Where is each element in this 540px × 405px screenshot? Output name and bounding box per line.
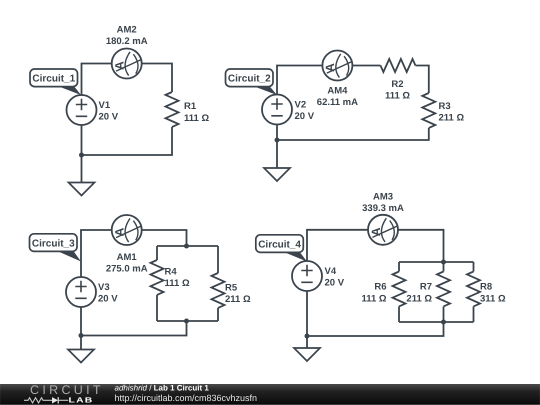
wire rail to R5: [217, 246, 219, 273]
wire V4 top to AM3: [307, 230, 368, 261]
svg-text:20 V: 20 V: [295, 111, 315, 122]
svg-text:Circuit_4: Circuit_4: [258, 240, 301, 251]
junction circuit 2 bottom node: [275, 138, 280, 143]
junction circuit 1 bottom node: [79, 153, 84, 158]
wire rail to R4: [156, 246, 158, 260]
svg-text:AM4: AM4: [327, 86, 348, 97]
junction circuit 4 top rail node: [441, 260, 446, 265]
wire V2 top to AM4: [277, 66, 322, 95]
wire bottom rail circuit 3: [157, 320, 218, 322]
node label Circuit_3: [30, 234, 82, 262]
wire V3 top to AM1: [81, 230, 112, 277]
svg-text:AM1: AM1: [117, 252, 138, 263]
wire R1 bottom to node: [82, 127, 173, 155]
wire to ground 4: [306, 336, 308, 348]
svg-text:Circuit_2: Circuit_2: [228, 74, 271, 85]
svg-text:180.2 mA: 180.2 mA: [106, 36, 148, 47]
wire R7 bottom: [443, 307, 445, 323]
resistor R1: [166, 92, 179, 127]
node label Circuit_4: [256, 235, 307, 262]
resistor R8: [467, 272, 480, 307]
voltage source V2: [262, 95, 292, 125]
wire rail to bottom node: [81, 321, 187, 336]
svg-text:111 Ω: 111 Ω: [385, 91, 410, 102]
svg-text:V3: V3: [98, 282, 110, 293]
svg-text:AM3: AM3: [373, 192, 393, 203]
svg-text:20 V: 20 V: [325, 278, 345, 289]
voltage source V1: [67, 95, 97, 125]
wire V4 bottom: [306, 291, 308, 336]
svg-text:http://circuitlab.com/cm836cvh: http://circuitlab.com/cm836cvhzusfn: [115, 393, 258, 403]
wire AM1 to parallel network: [142, 230, 187, 246]
resistor R6: [393, 272, 406, 307]
resistor R3: [422, 93, 435, 128]
wire to ground 2: [276, 140, 278, 168]
ground: [69, 183, 95, 196]
wire top rail circuit 3: [157, 245, 218, 247]
svg-text:R5: R5: [225, 283, 238, 294]
svg-text:adhishrid / Lab 1 Circuit 1: adhishrid / Lab 1 Circuit 1: [115, 384, 210, 392]
junction circuit 3 top rail node: [184, 244, 189, 249]
svg-text:Circuit_1: Circuit_1: [32, 74, 75, 85]
ground: [294, 348, 320, 361]
svg-text:211 Ω: 211 Ω: [439, 113, 465, 124]
resistor R4: [151, 260, 164, 295]
wire rail to R6: [398, 262, 400, 272]
wire to ground 3: [80, 336, 82, 350]
ammeter AM3: [368, 215, 398, 245]
wire V3 bottom: [80, 307, 82, 336]
resistor R2: [381, 59, 416, 72]
svg-text:20 V: 20 V: [98, 294, 118, 305]
wire rail to R7: [443, 262, 445, 272]
svg-text:R4: R4: [165, 267, 178, 278]
svg-text:V1: V1: [99, 100, 111, 111]
svg-text:111 Ω: 111 Ω: [165, 278, 190, 289]
svg-text:211 Ω: 211 Ω: [225, 294, 251, 305]
svg-text:R2: R2: [391, 79, 403, 90]
wire V1 bottom: [81, 125, 83, 155]
junction circuit 4 bottom node: [305, 334, 310, 339]
ammeter AM2: [112, 49, 142, 79]
svg-text:211 Ω: 211 Ω: [406, 294, 432, 305]
svg-text:LAB: LAB: [69, 396, 94, 405]
svg-text:Circuit_3: Circuit_3: [32, 239, 75, 250]
svg-text:311 Ω: 311 Ω: [480, 294, 506, 305]
wire R5 bottom: [217, 308, 219, 321]
svg-text:111 Ω: 111 Ω: [361, 294, 386, 305]
wire R6 bottom: [398, 307, 400, 323]
svg-text:339.3 mA: 339.3 mA: [362, 203, 404, 214]
svg-text:R1: R1: [184, 101, 197, 112]
wire AM4 to R2: [352, 65, 380, 67]
wire rail to bottom node: [307, 322, 444, 336]
svg-text:R3: R3: [439, 101, 451, 112]
footer bar: [0, 384, 540, 405]
svg-text:R7: R7: [420, 282, 432, 293]
svg-text:20 V: 20 V: [99, 112, 119, 123]
svg-text:R8: R8: [480, 282, 492, 293]
wire R8 bottom: [473, 307, 475, 323]
resistor R5: [212, 273, 225, 308]
svg-text:62.11 mA: 62.11 mA: [317, 97, 358, 108]
resistor R7: [437, 272, 450, 307]
junction circuit 3 bottom rail node: [184, 319, 189, 324]
wire R3 bottom to node: [277, 128, 429, 140]
wire AM3 to parallel network: [398, 230, 444, 262]
ground: [68, 350, 94, 363]
svg-text:V4: V4: [325, 266, 337, 277]
node label Circuit_1: [30, 69, 81, 95]
logo icon: wire, resistor zigzag, diode: [24, 397, 68, 403]
svg-text:V2: V2: [295, 100, 307, 111]
wire AM2 to R1: [141, 64, 172, 93]
wire to ground 1: [81, 155, 83, 183]
svg-text:R6: R6: [374, 282, 386, 293]
ammeter AM4: [322, 51, 352, 81]
junction circuit 3 bottom node: [79, 333, 84, 338]
ammeter AM1: [112, 215, 142, 245]
wire top rail circuit 4: [399, 261, 474, 263]
svg-text:AM2: AM2: [117, 25, 137, 36]
voltage source V3: [66, 277, 96, 307]
node label Circuit_2: [226, 69, 278, 95]
svg-text:275.0 mA: 275.0 mA: [106, 264, 148, 275]
wire V2 bottom: [276, 125, 278, 141]
wire bottom rail circuit 4: [399, 321, 474, 323]
wire V1 top to AM2: [82, 64, 113, 96]
svg-text:111 Ω: 111 Ω: [184, 113, 209, 124]
wire R2 to R3: [416, 66, 429, 94]
wire rail to R8: [473, 262, 475, 272]
junction circuit 4 bottom rail node: [441, 320, 446, 325]
wire R4 bottom: [156, 295, 158, 321]
voltage source V4: [292, 261, 322, 291]
ground: [264, 168, 290, 181]
